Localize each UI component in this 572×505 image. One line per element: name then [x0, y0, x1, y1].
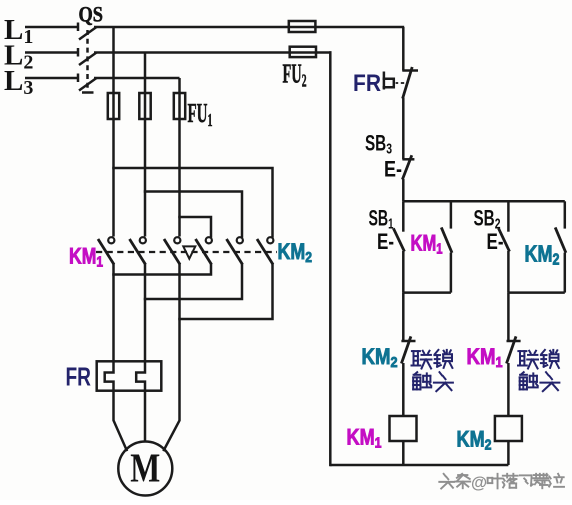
fuse FU2 lower: [290, 47, 316, 57]
wire coil KM2 to return: [507, 441, 510, 465]
label FR control: [353, 70, 381, 97]
label KM2 coil: [457, 427, 492, 454]
svg-text:KM1: KM1: [411, 231, 443, 258]
wire T1 to FR heater: [105, 265, 127, 451]
label E-2 actuator: [487, 229, 504, 254]
wire SB1 to interlock: [402, 293, 405, 341]
label interlock text right: [518, 350, 559, 391]
wire L3 bus: [94, 77, 180, 80]
pushbutton SB1 blade: [393, 228, 404, 251]
thermal FR contact blade: [403, 67, 413, 99]
svg-text:KM2: KM2: [278, 239, 313, 266]
switch QS pole 2 blade: [79, 53, 97, 66]
fuse FU1 element 1: [108, 93, 119, 120]
label E-1 actuator: [377, 229, 394, 254]
wire phase2 to contact: [144, 119, 147, 237]
watermark text: [439, 474, 564, 492]
coil KM1: [390, 416, 417, 441]
label M motor: [130, 445, 160, 491]
wire control return left: [329, 53, 332, 466]
wire KM2 aux lower: [564, 253, 567, 293]
label interlock text left: [412, 350, 453, 391]
svg-text:FU2: FU2: [283, 59, 307, 91]
svg-text:M: M: [130, 445, 160, 491]
wire KM1 aux lower: [450, 253, 453, 293]
svg-text:KM2: KM2: [457, 427, 492, 454]
label FU1: [188, 98, 213, 130]
linkage delta symbol: [183, 246, 195, 258]
label SB2: [474, 206, 501, 233]
label KM2 aux: [525, 241, 560, 269]
label FU2: [283, 59, 307, 91]
pushbutton SB3 blade: [402, 155, 411, 179]
label L3: [4, 65, 33, 99]
wire bottom return rail: [330, 464, 508, 467]
wire phase3 to contact: [178, 119, 181, 237]
contactor KM1 main contact 1: [98, 237, 114, 264]
svg-text:E-: E-: [377, 229, 394, 254]
wire L1 bus to control drop: [94, 26, 404, 29]
label KM1 interlock: [467, 344, 503, 371]
svg-text:KM1: KM1: [69, 244, 103, 271]
pushbutton SB3 crossbar: [402, 158, 414, 161]
wire SB1 lower: [402, 251, 405, 293]
svg-text:KM1: KM1: [347, 425, 382, 452]
fuse FU1 element 3: [174, 93, 185, 120]
wire crossover L1 to KM2-right: [114, 168, 273, 237]
contact KM1 aux blade: [441, 227, 452, 252]
svg-text:E-: E-: [487, 229, 504, 254]
label E-3 actuator: [384, 157, 402, 182]
interlock KM2 crossbar: [401, 340, 415, 343]
wire phase1 drop: [112, 27, 115, 94]
svg-text:E-: E-: [384, 157, 402, 182]
wire SB2 parallel join: [508, 291, 564, 294]
wire phase1 to contact: [112, 119, 115, 237]
contactor KM2 main contact 3: [257, 237, 273, 264]
switch QS pole 1 blade: [79, 27, 97, 40]
label L1: [4, 14, 33, 48]
contact KM2 aux upper wire: [564, 201, 567, 228]
wire L2 bus to control drop: [94, 51, 332, 54]
wire T3 to motor: [164, 265, 180, 451]
wire SB2 lower: [507, 251, 510, 293]
fuse FU1 element 2: [139, 93, 150, 120]
interlock KM1 crossbar: [507, 340, 521, 343]
switch QS linkage dashed: [82, 30, 94, 93]
wire coil KM1 to return: [402, 441, 405, 465]
svg-text:FR: FR: [353, 70, 381, 97]
pushbutton SB2 upper wire: [507, 201, 510, 231]
thermal FR contact crossbar: [402, 69, 418, 72]
wire T2 to FR heater: [136, 265, 145, 442]
wire SB2 to interlock: [507, 293, 510, 341]
svg-text:KM1: KM1: [467, 344, 503, 371]
wire SB3 to branch: [402, 179, 405, 201]
contact KM1 aux upper wire: [450, 201, 453, 228]
label FR left: [66, 362, 92, 392]
coil KM2: [495, 416, 522, 441]
label KM1 coil: [347, 425, 382, 452]
pushbutton SB1 upper wire: [402, 201, 405, 231]
pushbutton SB2 blade: [499, 228, 510, 251]
svg-text:FU1: FU1: [188, 98, 213, 130]
wire L2 to QS: [25, 48, 78, 57]
label KM2 main: [278, 239, 313, 266]
wire interlock to coil KM2: [507, 363, 510, 416]
svg-text:KM2: KM2: [362, 344, 398, 371]
label KM1 aux: [411, 231, 443, 258]
svg-text:KM2: KM2: [525, 241, 560, 269]
svg-text:QS: QS: [79, 2, 104, 27]
label SB3: [365, 131, 392, 158]
fuse FU2 upper: [289, 21, 316, 32]
svg-text:@: @: [471, 474, 487, 492]
wire L1 to QS: [25, 23, 78, 32]
thermal FR element symbol: [384, 72, 404, 90]
motor M circle: [118, 442, 172, 496]
contactor KM1 main contact 2: [130, 237, 146, 264]
wire join T3 KM1-KM2: [180, 265, 273, 320]
wire phase3 drop: [178, 78, 181, 94]
wire FR to SB3: [402, 98, 405, 160]
contact KM2 aux blade: [555, 227, 566, 252]
wire control feed drop: [402, 27, 405, 71]
svg-text:SB3: SB3: [365, 131, 392, 158]
svg-text:FR: FR: [66, 362, 92, 392]
wire L3 to QS: [25, 74, 78, 83]
contactor KM1 main contact 3: [164, 237, 180, 264]
wire SB1 parallel join: [403, 291, 451, 294]
label KM1 main: [69, 244, 103, 271]
wire join T1 KM1-KM2: [114, 265, 212, 275]
wire crossover L2 to KM2-mid: [145, 192, 242, 237]
interlock KM2 blade: [401, 336, 411, 363]
wire branch rail: [403, 200, 565, 203]
wire crossover L3 to KM2-left: [180, 217, 212, 237]
mechanical linkage dashed: [96, 251, 277, 253]
wire join T2 KM1-KM2: [145, 265, 242, 300]
label L2: [4, 40, 33, 74]
switch QS pole 3 blade: [79, 78, 97, 91]
label QS: [79, 2, 104, 27]
interlock KM1 blade: [507, 336, 517, 363]
label SB1: [369, 206, 394, 233]
wire interlock to coil KM1: [402, 363, 405, 416]
contactor KM2 main contact 2: [227, 237, 243, 264]
contactor KM2 main contact 1: [196, 237, 212, 264]
wire phase2 drop: [144, 53, 147, 95]
label KM2 interlock: [362, 344, 398, 371]
thermal relay FR box: [97, 361, 162, 390]
